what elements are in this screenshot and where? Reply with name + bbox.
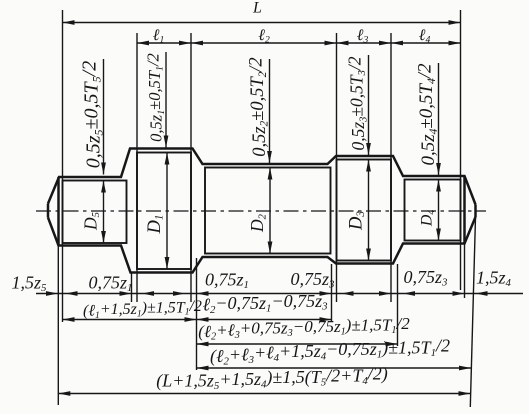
D5 step finished contour [63,181,127,244]
chain (l1+1,5z1)+-1,5T1/2 [63,319,197,321]
arrow 1,5z4 tip-line [476,291,488,296]
dimension D2 [269,168,271,254]
ext line D1 left face [136,33,138,302]
left cone tip flat [47,204,50,218]
chain l2-0,75z1-0,75z3 [197,319,332,321]
chain (l2+l3+0,75z3-0,75z1)+-1,5T1/2 [197,343,398,345]
allowance 0,5z2 leader [269,59,271,163]
svg-text:0,5z4​±0,5T4​/2: 0,5z4​±0,5T4​/2 [414,63,439,166]
svg-text:0,5z2​±0,5T2​/2: 0,5z2​±0,5T2​/2 [246,57,270,156]
dimension D4 [438,180,440,241]
arrow 0,75z3 D2D3 fin [342,291,354,296]
ext line blank shoulder right of D3 [397,264,399,346]
dimension row l1 l2 l3 l4 [137,42,461,44]
arrow 0,75z1 fin-face [142,291,154,296]
left cone base [57,177,60,246]
svg-text:0,5z3​±0,5T3​/2: 0,5z3​±0,5T3​/2 [345,56,370,150]
ext line D1 right face [190,33,192,302]
chain (l2+l3+l4+1,5z4-0,75z1)+-1,5T1/2 [197,367,472,369]
svg-text:0,5z5​±0,5T5​/2: 0,5z5​±0,5T5​/2 [79,61,106,168]
svg-text:0,75z3​: 0,75z3​ [291,269,336,291]
arrow 1,5z4 blank-face [453,291,465,296]
svg-text:0,5z1​±0,5T1​/2: 0,5z1​±0,5T1​/2 [143,53,167,142]
arrow 0,75z3 D3D4 fin [379,291,391,296]
D2 step finished contour [205,168,331,254]
svg-text:0,75z1​: 0,75z1​ [205,270,249,292]
svg-text:0,75z1​: 0,75z1​ [89,273,133,295]
ext line D3 left face [336,33,338,302]
ext line blank shoulder left of D3 [331,264,333,322]
arrow 0,75z3 D2D3 blank [320,291,332,296]
D3 step finished contour [337,160,392,261]
ext line D3 right face [390,33,392,302]
dimension D5 [103,181,105,244]
arrow 1,5z5 right [46,291,58,296]
allowance 0,5z5 leader [103,59,105,175]
centerline [36,210,486,212]
right cone base [463,176,466,244]
shaft blank outer contour (bottom) [48,217,476,273]
ext line right finished face [460,10,462,290]
shaft blank outer contour (top) [48,149,476,205]
allowance 0,5z3 leader [368,55,370,155]
small allowance dims row [36,293,523,295]
ext line left finished face [62,10,64,322]
arrow 0,75z1 blank-face [120,291,132,296]
ext line blank right face [464,244,466,299]
dimension L line [63,22,461,24]
ext line blank shoulder right of D1 [196,258,198,370]
arrow 0,75z3 D3D4 blank [403,291,415,296]
arrow 0,75z1 outer-left [66,291,78,296]
arrow 0,75z1 D1D2 fin [173,291,185,296]
D1 step finished contour [137,153,191,270]
ext line blank right cone tip [470,217,475,407]
chain (L+1,5z5+1,5z4)+-1,5(T5/2+T4/2) [58,393,470,395]
ext line blank left cone base [57,246,59,406]
svg-text:0,75z3​: 0,75z3​ [404,267,449,289]
right cone tip flat [474,205,477,218]
dimension D1 [166,153,168,270]
dimension D3 [368,160,370,261]
allowance 0,5z1 leader [165,52,167,148]
D4 step finished contour [405,180,461,241]
ext line blank shoulder left of D1 [131,273,133,303]
allowance 0,5z4 leader [438,63,440,175]
svg-text:L: L [252,0,262,17]
arrow 0,75z1 D1D2 blank [197,291,209,296]
